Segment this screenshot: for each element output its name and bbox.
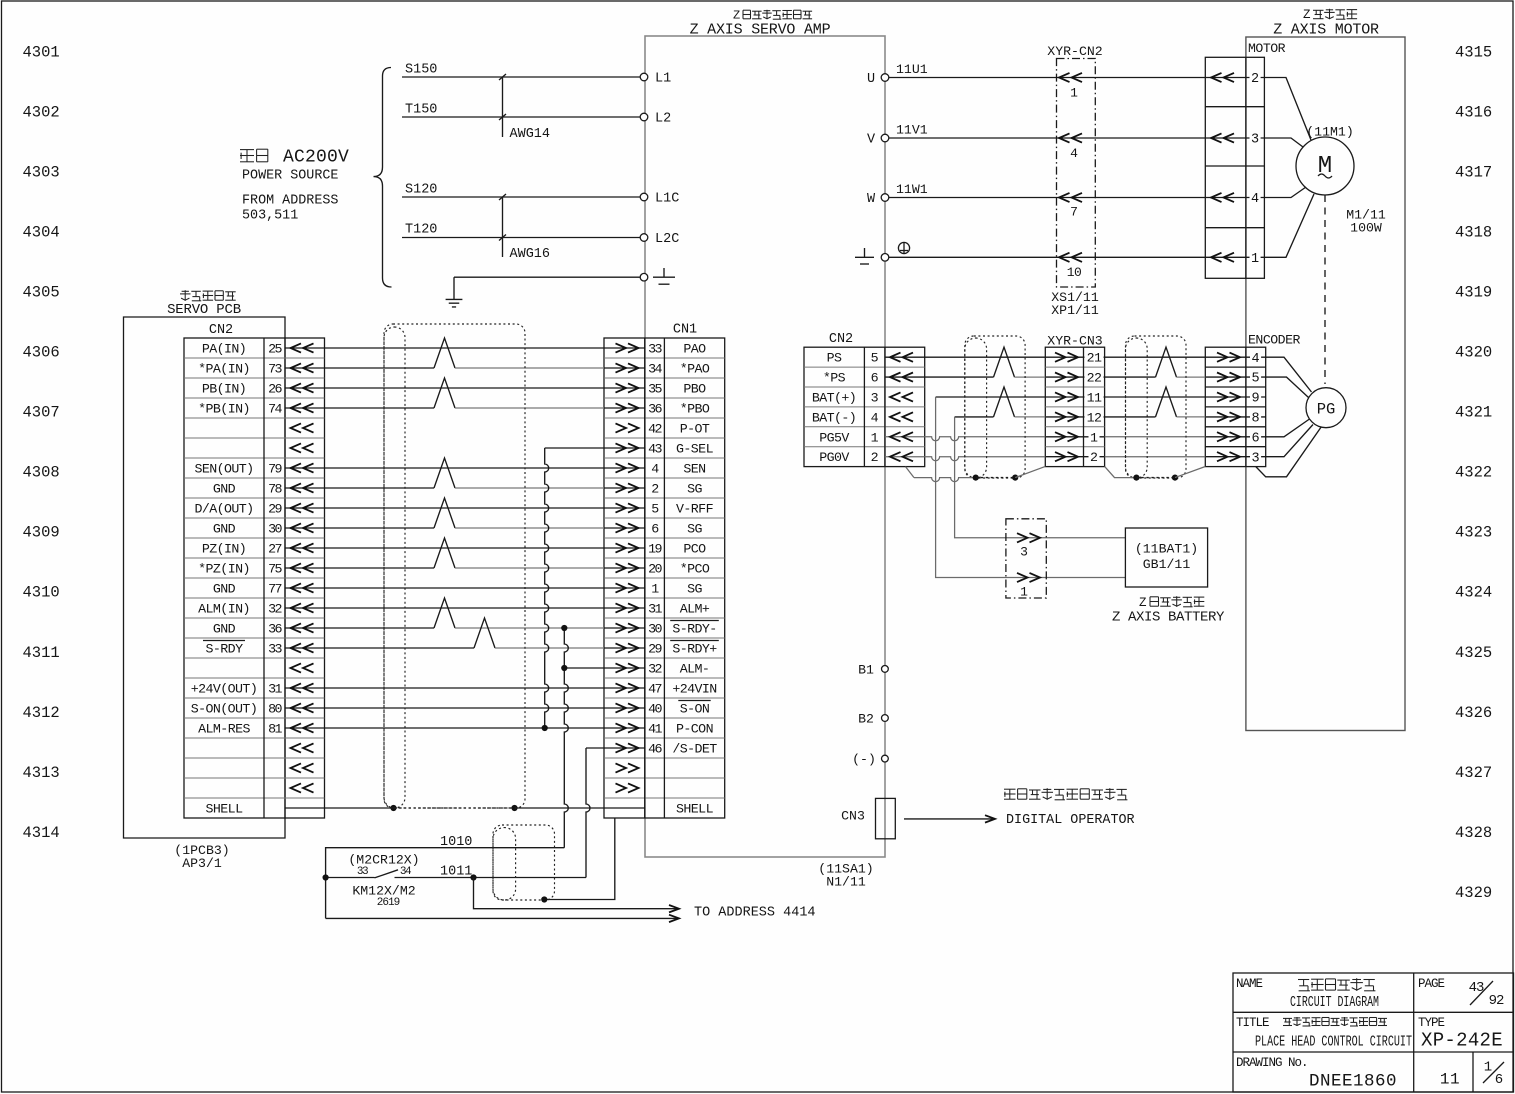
wire through CN1 arrow cell row 13 xyxy=(604,607,645,609)
svg-text:46: 46 xyxy=(648,742,662,757)
XYR-CN3 pin 12 xyxy=(1045,416,1104,418)
svg-text:SHELL: SHELL xyxy=(676,802,714,817)
encoder connector xyxy=(1205,347,1265,466)
CN1 arrow row 20 xyxy=(628,723,639,732)
svg-text:4320: 4320 xyxy=(1455,344,1492,362)
wire encoder pin 4 to PG xyxy=(1266,357,1312,392)
wire PG0V to XYR-CN3 2 xyxy=(925,457,1046,461)
svg-text:4316: 4316 xyxy=(1455,103,1492,121)
wire through CN1 arrow cell row 5 xyxy=(604,447,645,449)
wire motor pin 1 to motor xyxy=(1264,194,1314,257)
wire *PS to XYR-CN3 22 (pair low) xyxy=(925,376,994,378)
wire through CN1 arrow cell row 3 xyxy=(604,407,645,409)
wire through CN1 arrow cell row 17 xyxy=(604,687,645,689)
svg-text:TYPE: TYPE xyxy=(1418,1016,1445,1030)
svg-text:47: 47 xyxy=(648,682,661,697)
svg-text:4303: 4303 xyxy=(23,163,60,181)
svg-text:CIRCUIT DIAGRAM: CIRCUIT DIAGRAM xyxy=(1290,994,1379,1011)
svg-text:PG0V: PG0V xyxy=(819,450,849,465)
svg-text:Z AXIS BATTERY: Z AXIS BATTERY xyxy=(1112,609,1225,625)
svg-text:2: 2 xyxy=(1251,72,1259,87)
encoder cable shield A inner xyxy=(965,338,987,478)
svg-text:4313: 4313 xyxy=(23,764,60,782)
CN2 arrow row 9 xyxy=(291,503,302,512)
motor connector pin 4 xyxy=(1205,197,1264,199)
svg-text:XYR-CN3: XYR-CN3 xyxy=(1047,334,1102,349)
wire ALM- stub CN1 pin 32 xyxy=(564,667,604,669)
svg-text:75: 75 xyxy=(268,562,282,577)
svg-text:BAT(+): BAT(+) xyxy=(812,391,856,406)
svg-text:SG: SG xyxy=(687,482,702,497)
wire through CN2 arrow cell row 10 xyxy=(285,547,325,549)
svg-text:*PAO: *PAO xyxy=(680,362,710,377)
svg-text:NAME: NAME xyxy=(1236,977,1263,991)
wire pair row 3 with twist crossover xyxy=(325,407,435,409)
CN2 arrow row 3 xyxy=(291,383,302,392)
svg-text:5: 5 xyxy=(1251,372,1259,387)
battery connector pin 1 xyxy=(1030,573,1041,582)
svg-text:42: 42 xyxy=(648,422,662,437)
svg-text:5: 5 xyxy=(871,351,879,366)
svg-text:4302: 4302 xyxy=(23,103,60,121)
CN2 row PG0V pin 2 xyxy=(885,456,925,458)
terminal U xyxy=(881,74,889,82)
svg-text:3: 3 xyxy=(1251,133,1259,148)
svg-text:ENCODER: ENCODER xyxy=(1248,333,1300,348)
svg-text:34: 34 xyxy=(648,362,662,377)
svg-text:30: 30 xyxy=(268,522,282,537)
svg-text:4311: 4311 xyxy=(23,644,60,662)
wire pair row 14 with twist crossover xyxy=(325,627,435,629)
CN2 arrow row 1 xyxy=(291,343,302,352)
svg-text:4309: 4309 xyxy=(23,524,60,542)
label サーボ基板 xyxy=(180,290,236,301)
svg-text:PG5V: PG5V xyxy=(819,430,849,445)
svg-text:4322: 4322 xyxy=(1455,464,1492,482)
svg-text:SG: SG xyxy=(687,522,702,537)
svg-text:L1: L1 xyxy=(655,72,671,87)
left margin address labels 4301-4314 xyxy=(23,43,60,842)
CN1 arrow row 12 xyxy=(628,563,639,572)
svg-text:4323: 4323 xyxy=(1455,524,1492,542)
svg-text:*PB(IN): *PB(IN) xyxy=(198,402,250,417)
svg-text:12: 12 xyxy=(1087,410,1102,425)
wire through CN2 arrow cell row 12 xyxy=(285,587,325,589)
wire BAT(+) to XYR-CN3 11 xyxy=(936,396,1046,398)
svg-text:S-RDY-: S-RDY- xyxy=(672,622,716,637)
connector XYR-CN3 table xyxy=(1045,347,1104,466)
wire /S-DET vertical to 1011 xyxy=(586,748,590,878)
svg-text:+24V(OUT): +24V(OUT) xyxy=(191,682,257,697)
svg-text:S-ON(OUT): S-ON(OUT) xyxy=(191,702,257,717)
wire G-SEL stub CN1 pin 43 xyxy=(545,447,604,449)
Z axis servo amp enclosure U1 xyxy=(645,36,885,857)
wire /S-DET stub CN1 pin 46 xyxy=(586,747,604,749)
wire encoder pin 3 to PG xyxy=(1266,425,1313,457)
svg-text:XP1/11: XP1/11 xyxy=(1051,303,1099,318)
CN1 arrow row 19 xyxy=(628,703,639,712)
svg-text:4324: 4324 xyxy=(1455,584,1492,602)
CN1 arrow row 1 xyxy=(628,343,639,352)
svg-text:4325: 4325 xyxy=(1455,644,1492,662)
svg-text:4314: 4314 xyxy=(23,824,60,842)
svg-text:CN2: CN2 xyxy=(209,323,233,338)
wire through CN2 arrow cell row 17 xyxy=(285,687,325,689)
svg-text:36: 36 xyxy=(268,622,282,637)
svg-text:DNEE1860: DNEE1860 xyxy=(1309,1072,1397,1092)
svg-text:4: 4 xyxy=(871,410,879,425)
svg-text:ALM-: ALM- xyxy=(680,662,710,677)
svg-text:503,511: 503,511 xyxy=(242,209,298,224)
wire row 17 xyxy=(325,687,605,689)
svg-text:GB1/11: GB1/11 xyxy=(1143,557,1191,572)
CN1 arrow row 13 xyxy=(628,583,639,592)
shield drain CN2 to shield A xyxy=(906,467,915,478)
svg-text:PZ(IN): PZ(IN) xyxy=(202,542,246,557)
XYR-CN2 pin 7 arrow xyxy=(1059,193,1070,202)
svg-text:*PCO: *PCO xyxy=(680,562,710,577)
wire motor pin 4 to motor xyxy=(1264,187,1306,198)
svg-text:11U1: 11U1 xyxy=(896,62,928,77)
svg-text:SEN(OUT): SEN(OUT) xyxy=(194,462,253,477)
svg-text:1: 1 xyxy=(871,430,879,445)
encoder connector pin 4 xyxy=(1205,356,1265,358)
svg-text:11V1: 11V1 xyxy=(896,123,928,138)
svg-text:33: 33 xyxy=(357,866,368,878)
CN1 arrow row 8 xyxy=(628,483,639,492)
wire to address 4414 upper xyxy=(474,878,679,909)
svg-text:PA(IN): PA(IN) xyxy=(202,342,246,357)
wire through CN1 arrow cell row 8 xyxy=(604,507,645,509)
svg-text:25: 25 xyxy=(268,342,282,357)
servo amp CN2 encoder table xyxy=(804,347,925,466)
wire through CN2 arrow cell row 15 xyxy=(285,647,325,649)
svg-text:G-SEL: G-SEL xyxy=(676,442,714,457)
wire through CN1 arrow cell row 10 xyxy=(604,547,645,549)
encoder connector pin 6 xyxy=(1205,436,1265,438)
svg-text:Z: Z xyxy=(1139,596,1147,610)
svg-text:*PS: *PS xyxy=(823,371,846,386)
svg-text:SERVO PCB: SERVO PCB xyxy=(167,302,241,318)
svg-text:SEN: SEN xyxy=(683,462,705,477)
encoder connector pin 8 xyxy=(1205,416,1265,418)
svg-text:GND: GND xyxy=(213,522,236,537)
shield junction dot right xyxy=(511,805,517,811)
wire XYR-CN3 21 to encoder 4 (pair) xyxy=(1105,356,1206,358)
encoder connector pin 5 xyxy=(1205,376,1265,378)
wire through CN1 arrow cell row 18 xyxy=(604,707,645,709)
svg-text:T150: T150 xyxy=(405,103,437,118)
wire through CN2 arrow cell row 13 xyxy=(285,607,325,609)
motor connector pin 1 xyxy=(1205,256,1264,258)
svg-text:N1/11: N1/11 xyxy=(826,875,866,890)
svg-text:4318: 4318 xyxy=(1455,223,1492,241)
wire through CN1 arrow cell row 15 xyxy=(604,647,645,649)
XYR-CN3 pin 2 xyxy=(1045,456,1104,458)
svg-text:4308: 4308 xyxy=(23,464,60,482)
label ディジタルオペレータ xyxy=(1004,788,1127,800)
svg-text:4307: 4307 xyxy=(23,404,60,422)
svg-text:41: 41 xyxy=(648,722,662,737)
encoder shield drain to PG xyxy=(1256,427,1322,477)
svg-text:GND: GND xyxy=(213,622,236,637)
svg-text:32: 32 xyxy=(268,602,282,617)
svg-text:AP3/1: AP3/1 xyxy=(182,856,222,871)
CN2 arrow row 11 xyxy=(291,543,302,552)
svg-text:V-RFF: V-RFF xyxy=(676,502,714,517)
svg-text:S-RDY+: S-RDY+ xyxy=(672,642,717,657)
CN1 arrow row 17 xyxy=(628,663,639,672)
svg-text:POWER SOURCE: POWER SOURCE xyxy=(242,169,338,184)
svg-text:79: 79 xyxy=(268,462,282,477)
svg-text:SG: SG xyxy=(687,582,702,597)
wire pair row 7 with twist crossover xyxy=(325,487,435,489)
svg-text:1: 1 xyxy=(1020,584,1028,599)
wire PE to motor xyxy=(889,256,1206,258)
svg-text:PAO: PAO xyxy=(683,342,706,357)
svg-text:S150: S150 xyxy=(405,63,437,78)
svg-text:29: 29 xyxy=(268,502,282,517)
svg-text:DRAWING No.: DRAWING No. xyxy=(1236,1056,1308,1070)
svg-text:6: 6 xyxy=(871,371,879,386)
power source group brace xyxy=(374,68,392,288)
XYR-CN2 pin 4 arrow xyxy=(1059,133,1070,142)
svg-text:TITLE: TITLE xyxy=(1236,1016,1269,1030)
wire XYR-CN3 2 to encoder 3 xyxy=(1105,456,1206,458)
svg-text:PBO: PBO xyxy=(683,382,706,397)
CN1 arrow row 9 xyxy=(628,503,639,512)
terminal V xyxy=(881,134,889,142)
CN1 arrow row 5 xyxy=(628,423,639,432)
svg-text:4312: 4312 xyxy=(23,704,60,722)
wire through CN1 arrow cell row 0 xyxy=(604,347,645,349)
svg-text:*PA(IN): *PA(IN) xyxy=(198,362,250,377)
svg-text:78: 78 xyxy=(268,482,282,497)
CN2 arrow row 5 xyxy=(291,423,302,432)
wire through CN2 arrow cell row 14 xyxy=(285,627,325,629)
encoder cable shield B outer xyxy=(1126,336,1187,478)
wire through CN2 arrow cell row 18 xyxy=(285,707,325,709)
svg-text:AWG16: AWG16 xyxy=(510,247,551,262)
cable AWG14 marker xyxy=(502,77,504,137)
CN1 arrow row 7 xyxy=(628,463,639,472)
svg-text:4319: 4319 xyxy=(1455,284,1492,302)
wire through CN2 arrow cell row 0 xyxy=(285,347,325,349)
terminal PE with earth symbol xyxy=(640,273,648,281)
svg-text:Z: Z xyxy=(1303,8,1311,22)
wire through CN1 arrow cell row 20 xyxy=(604,747,645,749)
junction dot 1011/S-DET xyxy=(470,874,476,880)
1010/1011 cable shield inner xyxy=(493,828,516,900)
CN1 arrow row 18 xyxy=(628,683,639,692)
XYR-CN3 pin 11 xyxy=(1045,396,1104,398)
svg-text:PG: PG xyxy=(1317,401,1336,419)
svg-text:19: 19 xyxy=(648,542,662,557)
svg-text:GND: GND xyxy=(213,582,236,597)
terminal B1 xyxy=(882,666,889,673)
CN2 arrow row 10 xyxy=(291,523,302,532)
svg-text:3: 3 xyxy=(1020,544,1028,559)
terminal W xyxy=(881,194,889,202)
CN2 arrow row 16 xyxy=(291,643,302,652)
wire motor pin 3 to motor xyxy=(1264,138,1303,147)
CN2 row S-RDY pin 33 xyxy=(203,640,245,642)
wire pair row 9 with twist crossover xyxy=(325,527,435,529)
CN2 arrow row 19 xyxy=(291,703,302,712)
terminal PE earth xyxy=(881,253,889,261)
svg-text:29: 29 xyxy=(648,642,662,657)
svg-text:+24VIN: +24VIN xyxy=(672,682,716,697)
svg-text:/S-DET: /S-DET xyxy=(672,742,717,757)
svg-text:73: 73 xyxy=(268,362,282,377)
svg-text:3: 3 xyxy=(1251,451,1259,466)
wire through CN1 arrow cell row 19 xyxy=(604,727,645,729)
wire through CN1 arrow cell row 7 xyxy=(604,487,645,489)
cable shield outer (dotted) xyxy=(384,324,525,808)
CN1 arrow row 21 xyxy=(628,743,639,752)
svg-text:TO ADDRESS 4414: TO ADDRESS 4414 xyxy=(694,906,816,921)
CN2 arrow row 17 xyxy=(291,663,302,672)
CN1 arrow row 22 xyxy=(628,763,639,772)
junction dot cable shield to SHELL xyxy=(541,896,547,902)
svg-text:4315: 4315 xyxy=(1455,43,1492,61)
CN1 arrow row 4 xyxy=(628,403,639,412)
wire through CN1 arrow cell row 14 xyxy=(604,627,645,629)
svg-text:81: 81 xyxy=(268,722,282,737)
XYR-CN3 pin 22 xyxy=(1045,376,1104,378)
svg-text:PS: PS xyxy=(827,351,842,366)
wire through CN2 arrow cell row 7 xyxy=(285,487,325,489)
svg-text:4321: 4321 xyxy=(1455,404,1492,422)
CN2 arrow row 8 xyxy=(291,483,302,492)
Z axis motor enclosure M1 xyxy=(1246,37,1405,731)
wire pair row 15 with twist crossover xyxy=(325,647,475,649)
svg-text:*PZ(IN): *PZ(IN) xyxy=(198,562,250,577)
svg-text:SHELL: SHELL xyxy=(206,802,244,817)
svg-text:4301: 4301 xyxy=(23,43,60,61)
wire through CN2 arrow cell row 3 xyxy=(285,407,325,409)
svg-text:80: 80 xyxy=(268,702,282,717)
svg-text:4327: 4327 xyxy=(1455,764,1492,782)
battery (11BAT1) GB1/11 xyxy=(1125,528,1207,587)
svg-text:92: 92 xyxy=(1489,993,1504,1009)
CN1 arrow row 15 xyxy=(628,623,639,632)
svg-text:FROM ADDRESS: FROM ADDRESS xyxy=(242,194,338,209)
svg-text:43: 43 xyxy=(648,442,662,457)
wire PS to XYR-CN3 21 (pair) xyxy=(925,356,1046,358)
svg-text:W: W xyxy=(867,192,876,207)
wire XYR-CN3 22 to encoder 5 (pair low) xyxy=(1105,376,1156,378)
shield junction dot left xyxy=(390,805,396,811)
svg-text:B1: B1 xyxy=(858,662,874,677)
terminal B2 xyxy=(882,715,889,722)
wire through CN2 arrow cell row 23 xyxy=(285,807,325,809)
battery connector (dash-dot box) xyxy=(1006,519,1046,598)
wire BAT(-) to XYR-CN3 12 (pair low) xyxy=(955,416,994,418)
wire through CN1 arrow cell row 12 xyxy=(604,587,645,589)
svg-text:V: V xyxy=(867,133,876,148)
encoder cable shield A outer xyxy=(965,336,1025,478)
CN2 row *PS pin 6 xyxy=(885,376,925,378)
SHELL wire xyxy=(325,807,394,809)
XYR-CN2 pin 1 arrow xyxy=(1059,73,1070,82)
shield A dots xyxy=(973,475,979,481)
svg-text:74: 74 xyxy=(268,402,282,417)
motor connector pin 3 xyxy=(1205,137,1264,139)
earth ground symbol (power input) xyxy=(453,291,455,299)
svg-text:11W1: 11W1 xyxy=(896,182,928,197)
svg-text:4328: 4328 xyxy=(1455,824,1492,842)
protective earth circle symbol xyxy=(898,242,909,253)
XYR-CN3 pin 21 xyxy=(1045,356,1104,358)
motor power connector xyxy=(1205,57,1264,278)
svg-text:Z: Z xyxy=(733,9,740,23)
svg-text:77: 77 xyxy=(268,582,281,597)
wire row 13 xyxy=(325,607,605,609)
wire row 12 xyxy=(325,587,605,589)
wire through CN2 arrow cell row 1 xyxy=(285,367,325,369)
wire row 2 xyxy=(325,387,605,389)
title block xyxy=(1233,973,1514,1092)
svg-text:XYR-CN2: XYR-CN2 xyxy=(1047,44,1102,59)
wire through CN2 arrow cell row 11 xyxy=(285,567,325,569)
CN2 arrow row 13 xyxy=(291,583,302,592)
svg-text:U: U xyxy=(867,72,875,87)
wire ground from amp to earth xyxy=(454,276,640,278)
svg-text:Z AXIS MOTOR: Z AXIS MOTOR xyxy=(1273,22,1379,39)
CN2 arrow row 4 xyxy=(291,403,302,412)
CN2 arrow row 7 xyxy=(291,463,302,472)
CN2 arrow row 20 xyxy=(291,723,302,732)
wire XYR-CN3 1 to encoder 6 xyxy=(1105,436,1206,438)
svg-text:*PBO: *PBO xyxy=(680,402,710,417)
svg-text:4: 4 xyxy=(1251,192,1259,207)
XYR-CN2 pin 10 arrow xyxy=(1059,253,1070,262)
svg-text:4329: 4329 xyxy=(1455,884,1492,902)
CN2 arrow row 21 xyxy=(291,743,302,752)
svg-text:11: 11 xyxy=(1087,391,1102,406)
svg-text:1: 1 xyxy=(1251,252,1259,267)
CN1 arrow row 3 xyxy=(628,383,639,392)
wire pair row 11 with twist crossover xyxy=(325,567,435,569)
cable AWG16 marker xyxy=(502,197,504,257)
svg-text:27: 27 xyxy=(268,542,281,557)
wire BAT(-) down to battery plus lead xyxy=(955,417,1126,538)
motor connector pin 2 xyxy=(1205,77,1264,79)
wire SHELL drop to cable shield xyxy=(544,818,615,900)
CN2 arrow row 6 xyxy=(291,443,302,452)
servo amp CN1 pin table xyxy=(604,338,725,818)
svg-text:CN3: CN3 xyxy=(841,809,865,824)
battery connector pin 3 xyxy=(1030,533,1041,542)
shield drain XYR-CN3 to shield B xyxy=(1105,466,1137,477)
CN2 arrow row 12 xyxy=(291,563,302,572)
svg-text:GND: GND xyxy=(213,482,236,497)
svg-text:33: 33 xyxy=(268,642,282,657)
svg-text:S-ON: S-ON xyxy=(680,702,710,717)
svg-text:AC200V: AC200V xyxy=(283,148,349,168)
svg-text:D/A(OUT): D/A(OUT) xyxy=(194,502,253,517)
CN2 arrow row 15 xyxy=(291,623,302,632)
svg-text:6: 6 xyxy=(1251,431,1259,446)
svg-text:DIGITAL OPERATOR: DIGITAL OPERATOR xyxy=(1006,813,1135,828)
CN2 arrow row 18 xyxy=(291,683,302,692)
shield A drain to XYR-CN3 xyxy=(1015,466,1045,477)
svg-text:21: 21 xyxy=(1087,351,1102,366)
wire through CN1 arrow cell row 1 xyxy=(604,367,645,369)
svg-text:30: 30 xyxy=(648,622,662,637)
wire through CN2 arrow cell row 9 xyxy=(285,527,325,529)
